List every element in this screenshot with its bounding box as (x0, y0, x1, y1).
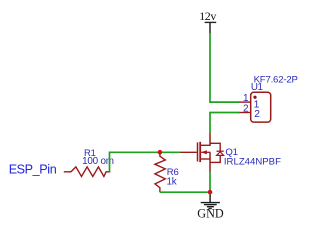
Q1 channel bar (199, 142, 201, 162)
svg-text:2: 2 (254, 109, 260, 120)
Q1 top diode-branch segment (210, 142, 221, 144)
Q1 top channel stub (200, 144, 211, 146)
wire R1 to gate node (110, 152, 181, 172)
junction node gate/R6 (158, 150, 163, 155)
Q1 body diode branch upper (219, 143, 221, 151)
svg-text:ESP_Pin: ESP_Pin (9, 162, 57, 176)
wire R6 bottom to ground node (160, 191, 210, 193)
svg-text:U1: U1 (251, 82, 263, 93)
svg-text:IRLZ44NPBF: IRLZ44NPBF (224, 156, 281, 167)
Q1 body diode cathode bar (217, 150, 224, 152)
svg-text:12v: 12v (199, 9, 216, 23)
Q1 body connection with arrow (201, 151, 210, 153)
wire source to ground node (209, 172, 211, 192)
svg-text:GND: GND (197, 207, 224, 221)
Q1 diode-branch return segment (210, 161, 221, 163)
MOSFET Q1 gate lead (180, 151, 197, 153)
Q1 body diode triangle (217, 152, 224, 156)
wire 12v to connector pin 1 (210, 33, 240, 102)
junction node source/GND (208, 190, 213, 195)
svg-text:2: 2 (243, 103, 249, 114)
Q1 gate bar (197, 142, 199, 161)
Q1 body diode branch lower (219, 155, 221, 162)
ground stem (209, 194, 211, 202)
wire connector pin 2 to MOSFET drain (210, 113, 240, 133)
ground bars (201, 203, 220, 209)
connector U1 pin 2 stub (240, 112, 252, 114)
resistor R6 (155, 154, 165, 193)
Q1 bottom channel stub (200, 158, 211, 160)
resistor R1 (64, 167, 111, 177)
svg-text:1k: 1k (167, 177, 177, 188)
connector U1 body KF7.62-2P (251, 92, 271, 122)
Q1 drain connection (209, 133, 211, 146)
power port 12v bar symbol (205, 22, 217, 33)
Q1 source lead (209, 152, 211, 172)
pin 1 marker dot (253, 96, 256, 99)
connector U1 pin 1 stub (240, 101, 252, 103)
